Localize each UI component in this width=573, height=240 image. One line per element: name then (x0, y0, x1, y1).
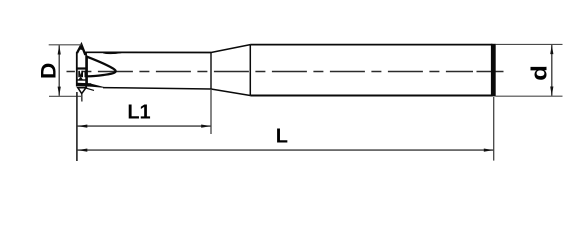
L arrow right (484, 149, 494, 152)
d dimension line (551, 45, 553, 96)
D bottom extension line (49, 95, 82, 97)
neck/taper junction (210, 53, 212, 90)
neck top line (86, 51, 211, 53)
L right extension line (493, 97, 495, 161)
L1 dimension line (78, 125, 211, 127)
D dimension line (58, 45, 60, 96)
head left edge (76, 52, 78, 86)
shank end face (491, 44, 496, 97)
L arrow left (78, 149, 88, 152)
shank top line (250, 44, 492, 46)
small wedge (79, 77, 82, 79)
D arrow up (58, 45, 61, 55)
corner chamfer edge (86, 88, 94, 90)
svg-text:d: d (527, 65, 552, 81)
L1 right extension line (210, 89, 212, 134)
shank bottom line (250, 95, 492, 97)
L1 left extension line (76, 92, 78, 161)
teeth diagonals (79, 71, 82, 77)
centerline end dash (477, 71, 504, 73)
teeth verticals (78, 71, 80, 77)
L1 arrow left (78, 125, 88, 128)
d top extension line (496, 43, 563, 45)
internal line B (77, 79, 87, 81)
d arrow up (550, 45, 553, 55)
tapering wedge to neck bottom (91, 84, 104, 87)
d arrow down (550, 87, 553, 97)
corner tooth V (78, 88, 86, 94)
bottom thick bar (77, 83, 91, 86)
D arrow down (58, 87, 61, 97)
d bottom extension line (496, 95, 563, 97)
centerline axis (67, 71, 474, 73)
taper/shank junction (249, 45, 251, 96)
svg-text:D: D (36, 63, 60, 79)
taper top line (211, 45, 250, 53)
apex peak (77, 45, 85, 55)
D top extension line (49, 44, 82, 46)
flute spiral (87, 57, 116, 77)
neck bottom line (103, 88, 211, 89)
cutter head outline (77, 45, 121, 102)
L1 arrow right (201, 125, 211, 128)
internal line A (77, 67, 87, 69)
svg-text:L: L (276, 125, 288, 147)
head right edge (85, 52, 87, 88)
L dimension line (78, 149, 494, 151)
flute back edge bulge (104, 53, 122, 54)
svg-text:L1: L1 (127, 102, 150, 124)
taper bottom line (211, 89, 250, 96)
